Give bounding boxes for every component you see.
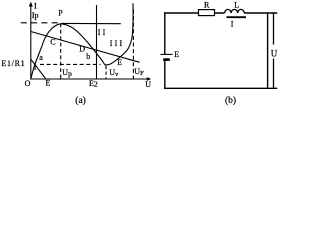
svg-text:Ip: Ip [32, 11, 39, 20]
U axis arrowhead [147, 77, 151, 81]
U axis (horizontal) [30, 78, 147, 80]
wire: left side lower (from battery) [164, 60, 166, 89]
curve region I (rising to peak P) [31, 24, 61, 79]
wire: top of loop [164, 12, 225, 14]
svg-text:E2: E2 [89, 79, 98, 88]
dashed jump line at valley level back to region I [40, 63, 100, 65]
svg-text:U: U [145, 80, 151, 89]
svg-text:E1/R1: E1/R1 [1, 59, 25, 68]
battery E long plate [161, 53, 173, 55]
svg-text:I: I [34, 63, 37, 72]
I axis arrowhead [29, 2, 33, 7]
svg-text:U: U [271, 49, 278, 59]
svg-text:I: I [34, 2, 37, 11]
svg-text:E: E [174, 50, 179, 59]
load line 1 from E1/R1 to E [31, 59, 46, 79]
svg-text:O: O [25, 79, 31, 88]
svg-text:C: C [50, 38, 55, 47]
svg-text:E: E [46, 79, 51, 88]
svg-text:D: D [79, 44, 85, 53]
svg-text:P: P [58, 9, 63, 18]
svg-text:(b): (b) [225, 95, 236, 106]
svg-text:Up: Up [62, 68, 72, 78]
svg-text:II: II [98, 28, 108, 37]
svg-text:(a): (a) [75, 95, 86, 106]
dashed vertical from P to Up [60, 23, 62, 79]
voltage U line upper segment [273, 13, 275, 45]
inductor L coil [225, 9, 245, 13]
curve region II (falling from P to valley) [61, 24, 105, 65]
wire: bottom of loop [164, 87, 277, 89]
wire: right side of loop [267, 13, 269, 88]
dashed line at Ip level to peak P [21, 22, 58, 24]
dashed vertical at UF [132, 10, 134, 79]
vertical line at E2 [96, 5, 98, 79]
svg-text:L: L [234, 0, 239, 9]
svg-text:a: a [39, 53, 43, 62]
svg-text:E: E [117, 58, 122, 67]
svg-text:I: I [231, 19, 234, 28]
curve region III (valley rising steeply) [105, 3, 133, 65]
wire: left side upper (to battery) [164, 12, 166, 54]
battery E short plate [163, 58, 170, 61]
wire: top of loop (right of coil) [244, 12, 277, 14]
line under coil [227, 16, 247, 18]
load line 2 through D to region III [31, 32, 140, 63]
svg-text:R: R [204, 0, 210, 9]
dashed vertical at Uv [105, 66, 107, 79]
svg-text:III: III [110, 39, 125, 48]
svg-text:b: b [86, 52, 90, 61]
resistor R body [199, 10, 215, 16]
voltage U line lower segment [273, 59, 275, 89]
I axis (vertical) [30, 6, 32, 80]
solid jump line at Ip level from P to region III [62, 22, 121, 24]
